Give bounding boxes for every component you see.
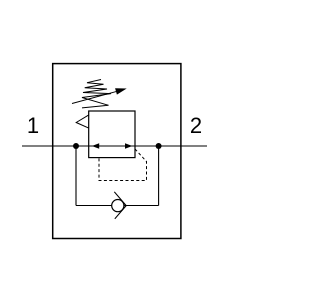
check valve circle: [112, 200, 124, 212]
flow arrow right: [125, 143, 132, 148]
adjustment arrow head: [115, 88, 127, 94]
wire: main line port 1 to port 2: [22, 145, 207, 147]
pilot line (dashed): [99, 149, 147, 181]
node junction right: [156, 143, 162, 149]
node junction left: [73, 143, 79, 149]
spring (zigzag): [82, 80, 111, 108]
flow arrow left: [92, 143, 99, 148]
svg-text:2: 2: [190, 113, 202, 138]
valve body square: [89, 111, 135, 158]
wire: bottom bypass line: [76, 205, 159, 207]
svg-text:1: 1: [27, 113, 39, 138]
outer enclosure box: [53, 64, 181, 239]
wire: right branch down: [158, 146, 160, 206]
adjustment arrow shaft: [72, 91, 118, 103]
check valve seat: [114, 192, 126, 219]
spring seat triangle on valve: [76, 115, 89, 128]
wire: left branch down: [75, 146, 77, 206]
